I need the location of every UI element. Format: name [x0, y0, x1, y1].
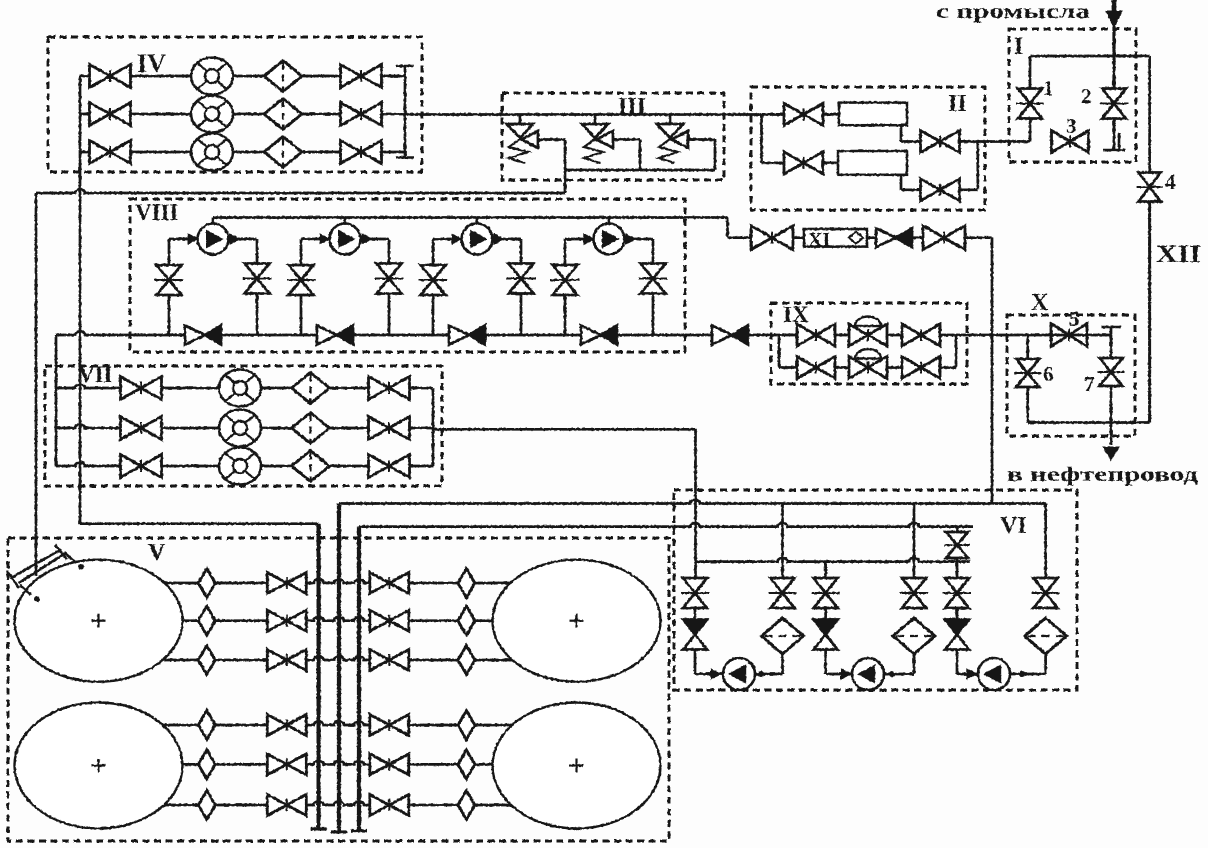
svg-text:6: 6: [1043, 362, 1054, 386]
svg-text:VII: VII: [78, 362, 113, 387]
svg-text:5: 5: [1069, 307, 1080, 331]
svg-text:IX: IX: [783, 302, 809, 327]
svg-text:1: 1: [1043, 76, 1054, 100]
svg-text:X: X: [1031, 290, 1049, 316]
svg-text:VIII: VIII: [135, 200, 179, 225]
svg-text:I: I: [1014, 34, 1023, 60]
svg-text:IV: IV: [137, 49, 166, 78]
svg-text:VI: VI: [1000, 513, 1027, 539]
svg-text:4: 4: [1165, 170, 1176, 194]
svg-text:7: 7: [1084, 372, 1095, 396]
svg-text:в нефтепровод: в нефтепровод: [1007, 462, 1199, 486]
svg-text:с промысла: с промысла: [936, 0, 1091, 23]
svg-text:2: 2: [1081, 84, 1092, 108]
svg-text:III: III: [618, 94, 646, 120]
svg-text:3: 3: [1066, 114, 1077, 138]
svg-text:XI: XI: [808, 229, 830, 251]
svg-text:V: V: [148, 540, 166, 566]
svg-text:XII: XII: [1156, 241, 1201, 268]
svg-text:II: II: [948, 91, 967, 117]
